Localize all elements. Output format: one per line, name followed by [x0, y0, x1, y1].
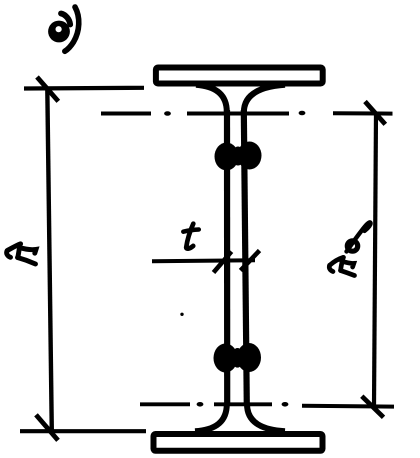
dim t left tick — [214, 252, 232, 273]
speck — [180, 313, 183, 316]
figure label v) : letter v bowl — [48, 14, 70, 43]
bottom flange — [154, 434, 323, 451]
upper weld blob — [215, 142, 262, 171]
bottom centerline dash 2 — [214, 402, 272, 406]
top centerline dash 2 — [187, 112, 289, 116]
dim h vertical line — [47, 88, 52, 432]
bottom centerline dot 2 — [282, 402, 289, 407]
label h_ef : f part — [347, 222, 371, 251]
top fillet left — [196, 85, 227, 112]
dim t leader line — [152, 260, 255, 261]
label h_ef : e part — [347, 241, 357, 251]
top fillet right — [244, 85, 285, 112]
top flange — [156, 68, 323, 84]
figure label v) : parenthesis — [65, 7, 79, 51]
dim h top tick — [37, 77, 58, 101]
label h — [7, 244, 36, 264]
dim h_ef top extension line — [333, 111, 393, 115]
bottom centerline dash 1 — [140, 402, 190, 406]
dim h top extension line — [24, 86, 144, 91]
top centerline dot 1 — [164, 111, 171, 116]
bottom fillet right — [247, 404, 285, 431]
top centerline dash 1 — [101, 112, 151, 116]
label t crossbar — [183, 230, 199, 232]
dim h_ef bottom extension line — [302, 404, 394, 409]
top centerline dot 2 — [299, 111, 306, 116]
dim h_ef bottom tick — [362, 396, 384, 417]
bottom centerline dot 1 — [197, 402, 204, 407]
web left line — [224, 110, 230, 406]
dim h_ef top tick — [365, 102, 385, 125]
dim h bottom extension line — [20, 429, 146, 433]
web right line — [244, 110, 247, 406]
dim h bottom tick — [36, 415, 58, 441]
bottom fillet left — [195, 404, 227, 431]
dim t right tick — [241, 251, 260, 271]
label t stem — [186, 224, 193, 249]
dim h_ef vertical line — [374, 113, 376, 406]
lower weld blob — [214, 343, 262, 373]
label h_ef : h part — [329, 257, 354, 275]
